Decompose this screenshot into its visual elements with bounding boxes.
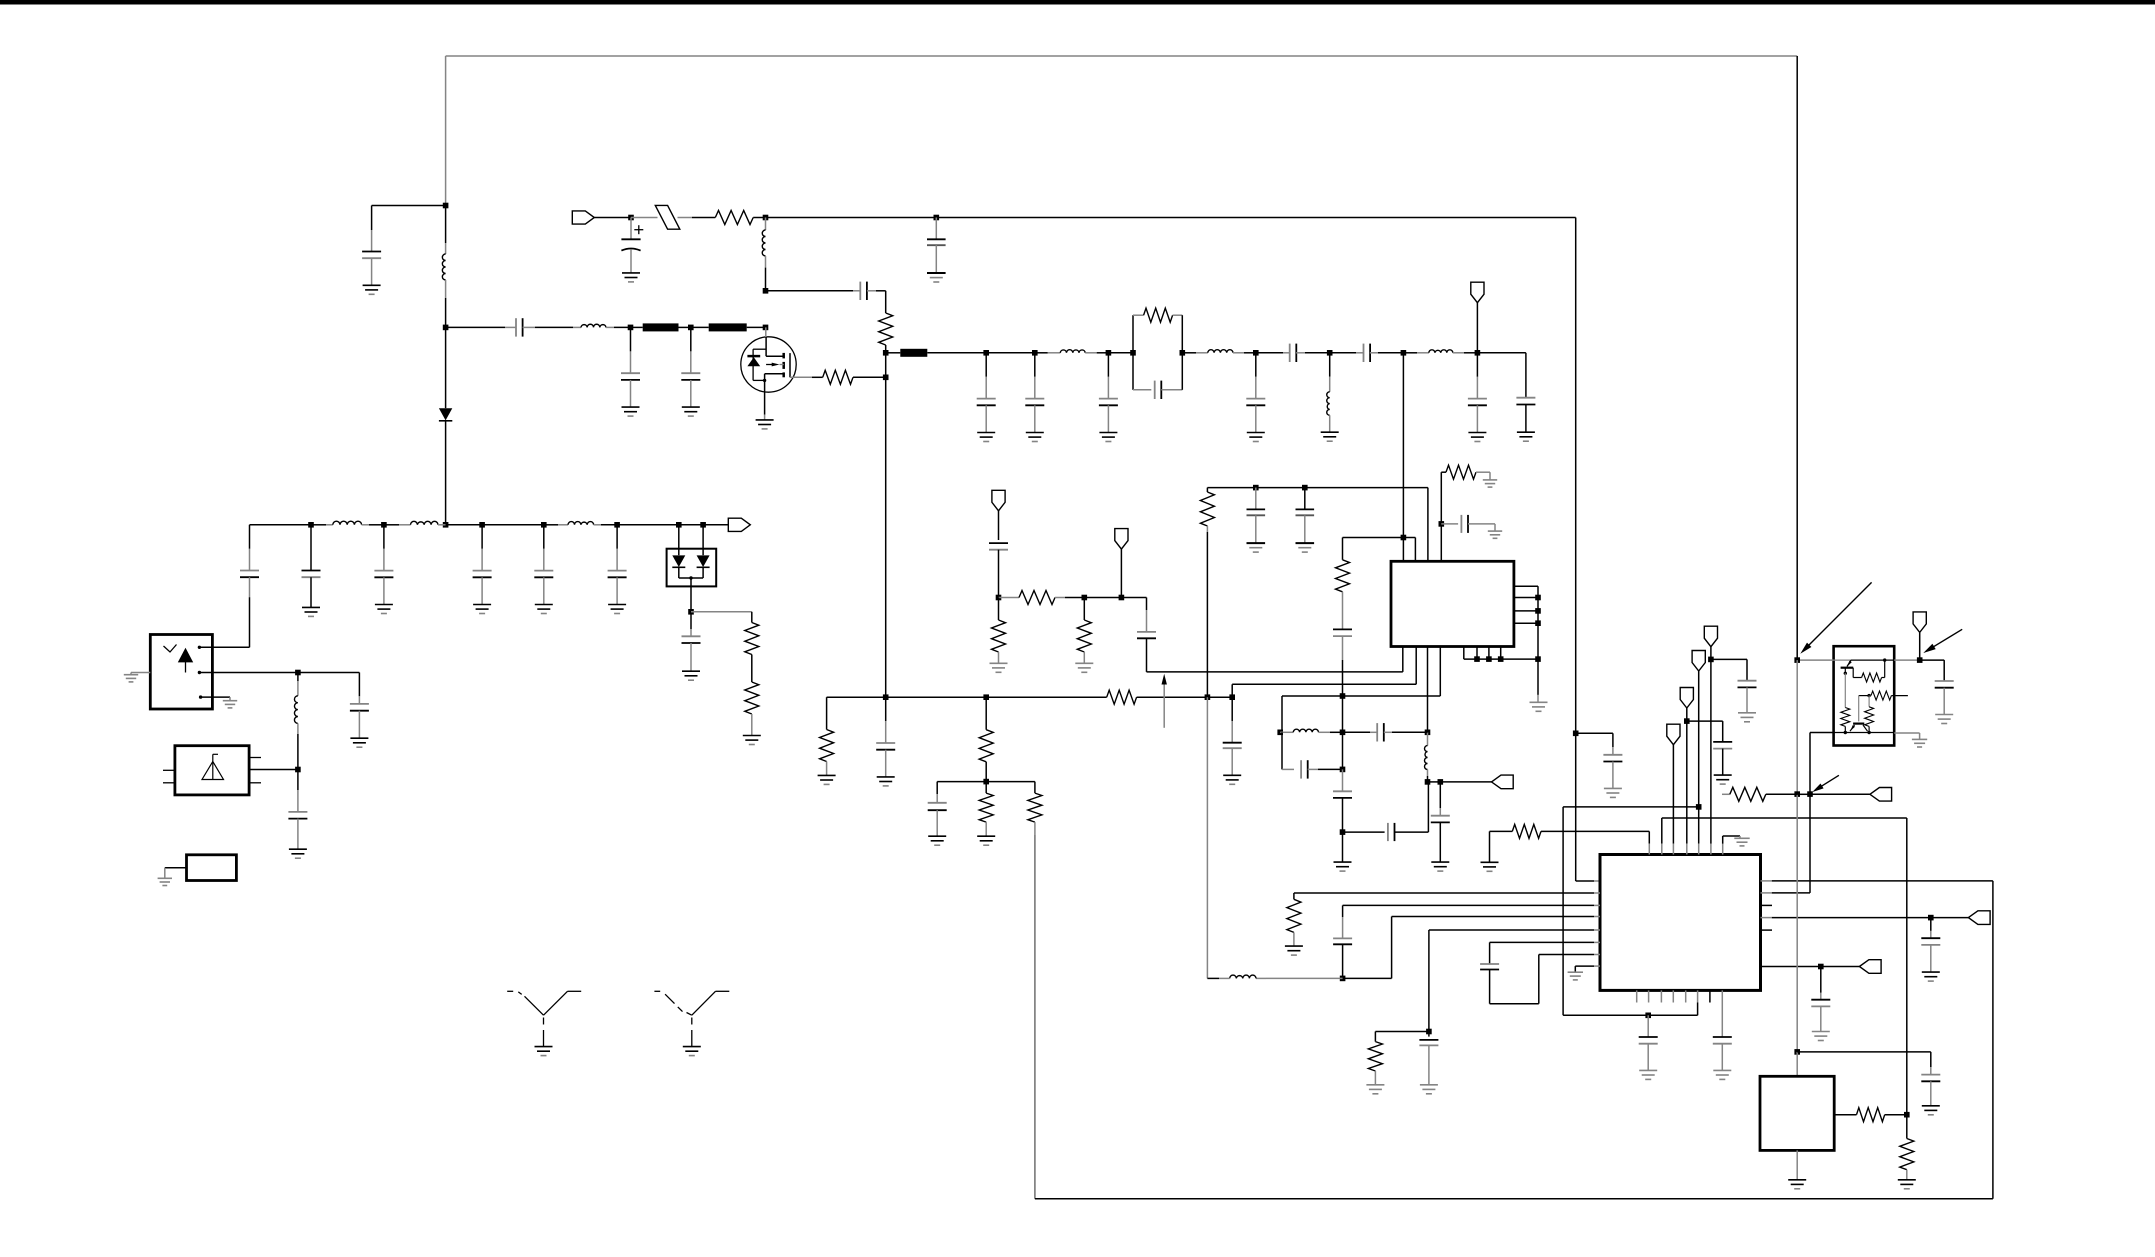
node J29 <box>688 609 694 615</box>
capacitor C42 shunt <box>1428 1032 1430 1037</box>
IC U4 left pin net y=930 RC <box>1429 929 1594 931</box>
resistor R5 <box>745 623 759 655</box>
ferrite bead FB3 <box>886 352 901 354</box>
node J27 <box>676 522 682 528</box>
resistor R2 <box>879 313 893 345</box>
ferrite bead FB2 <box>709 323 747 331</box>
ferrite bead FB1 <box>643 323 679 331</box>
wire to C24 <box>298 672 360 674</box>
inductor L13 <box>1280 731 1293 733</box>
ground C44 <box>1639 1069 1657 1071</box>
inductor L1 <box>445 243 447 254</box>
TVS diode pair D2 box <box>667 549 717 587</box>
node J34 <box>1205 694 1211 700</box>
antenna Y1 dashed <box>525 996 544 1015</box>
resistor R27 to ground <box>1906 1115 1908 1139</box>
node J11 gate node <box>883 375 889 381</box>
U1 pin2 <box>198 671 201 674</box>
node J36 <box>983 779 989 785</box>
ground C42 <box>1420 1084 1438 1086</box>
antenna Y2 dashed <box>665 994 674 1003</box>
transistor block U5 box <box>1834 646 1895 745</box>
IC U3 bottom stub rail <box>1463 647 1465 660</box>
IC U3 box <box>1391 561 1514 646</box>
node J42 <box>1401 535 1407 541</box>
capacitor C40 shunt <box>1612 733 1614 747</box>
node J61 <box>1794 657 1800 663</box>
IC U2 box <box>187 855 237 881</box>
ground R17 <box>1483 479 1497 481</box>
wire CN2 stem <box>1476 303 1478 353</box>
wire A-line <box>1147 671 1403 673</box>
IC U3 top pin B <box>1414 538 1416 562</box>
node J62 <box>1807 791 1813 797</box>
inductor L10 <box>544 524 558 526</box>
resistor R4 tank top <box>1133 314 1144 316</box>
capacitor C28 shunt <box>936 782 938 794</box>
node J64 <box>1794 791 1800 797</box>
resistor R9 under J33 <box>985 697 987 730</box>
node J3 <box>443 522 449 528</box>
wire VBAT top rail horizontal <box>446 55 1798 57</box>
node J7 <box>763 288 769 294</box>
node J55 <box>1645 1013 1651 1019</box>
wire to ground <box>1537 659 1539 695</box>
node J1 <box>443 203 449 209</box>
Q1 source lead <box>764 380 766 414</box>
capacitor C10 shunt <box>1107 353 1109 377</box>
capacitor C16 shunt at line end <box>1525 353 1527 398</box>
diode D2a <box>678 525 680 555</box>
inductor L2 drain feed <box>765 218 767 231</box>
ground R14 <box>1075 662 1093 664</box>
ground C18 <box>302 606 320 608</box>
resistor R24 in U5 <box>1868 696 1870 707</box>
resistor R21 in U5 <box>1841 708 1850 727</box>
IC U4 left pin net y=893 resistor R18 <box>1294 892 1594 894</box>
polarized capacitor C2 <box>630 218 632 240</box>
arrow pointer A3 <box>1818 775 1839 788</box>
wire J46 to CN6 <box>1440 781 1491 783</box>
connector CN13 <box>1913 612 1926 633</box>
arrow pointer A1 <box>1806 582 1872 648</box>
connector CN9 pentagon <box>1680 688 1693 709</box>
node J32 <box>883 694 889 700</box>
ground C45 <box>1713 1069 1731 1071</box>
capacitor C36 series lower arm <box>1281 732 1283 769</box>
resistor R6 <box>745 682 759 714</box>
capacitor C3 shunt <box>935 218 937 240</box>
wire VDD branch x=1563.1 <box>1563 806 1699 808</box>
IC U3 right pins to ground <box>1514 585 1538 587</box>
ground pin966 <box>1568 971 1583 973</box>
wire A-line corner up to IC1 <box>1402 647 1404 672</box>
node J35 <box>1229 694 1235 700</box>
node J8 <box>628 325 634 331</box>
wire RX line <box>250 524 312 526</box>
ground C2 <box>622 272 640 274</box>
connector CN1 pentagon <box>572 211 594 224</box>
wire left column top vertical <box>445 56 447 206</box>
ground U1 pin3 <box>223 700 237 702</box>
IC U4 right pin y=917.6 <box>1761 917 1772 919</box>
node J5 <box>763 215 769 221</box>
wire J1 to C1 <box>372 205 446 207</box>
wire J39 to C29 <box>1121 597 1146 599</box>
U6 bottom ground <box>1796 1150 1798 1179</box>
wire X1 to J31 <box>249 769 298 771</box>
U1 internal zener symbol <box>178 648 193 663</box>
X1 left pins <box>163 769 175 771</box>
capacitor C19 shunt <box>383 525 385 549</box>
IC U3 pin3 chain <box>1427 647 1429 733</box>
Q1 body diode <box>752 349 754 380</box>
resistor R23 base out <box>1859 695 1869 697</box>
wire bus to R8 <box>986 696 1106 698</box>
node J57 <box>1696 804 1702 810</box>
wire J3 to J24 <box>446 524 483 526</box>
wire rail corner down to IC1 <box>1427 488 1429 562</box>
node J63 <box>1917 657 1923 663</box>
fuse F1 <box>631 217 658 219</box>
node J10 <box>763 325 769 331</box>
ground Y1 <box>535 1046 553 1048</box>
capacitor C38 vertical <box>1342 769 1344 791</box>
node J58 <box>1684 718 1690 724</box>
wire J15 to tank <box>1108 352 1133 354</box>
node J56 <box>1708 657 1714 663</box>
capacitor C13 series <box>1256 352 1283 354</box>
ground C50 <box>1935 714 1953 716</box>
ground C16 <box>1517 431 1535 433</box>
ground R20 <box>1481 861 1499 863</box>
wire J26 to TVS <box>617 524 679 526</box>
U5 right ground <box>1894 732 1919 734</box>
node J47 <box>1340 693 1346 699</box>
tank right leg <box>1181 315 1183 390</box>
ground C1 <box>363 284 381 286</box>
IC U4 top pin resistor R20 net <box>1648 831 1650 843</box>
wire J2 down to D1 <box>445 327 447 408</box>
wire J11 down to bus <box>885 377 887 697</box>
node J48 <box>1277 730 1283 736</box>
inductor L4 <box>1035 352 1048 354</box>
wire J7 feedback top <box>766 290 854 292</box>
wire J65 row <box>1797 1051 1931 1053</box>
node J39 <box>1119 595 1125 601</box>
resistor R26 from U6 <box>1834 1114 1856 1116</box>
regulator U1 box <box>150 635 212 710</box>
wire J29 to divider <box>691 611 752 613</box>
capacitor C27 shunt <box>1231 697 1233 721</box>
arrow pointer A2 <box>1930 629 1963 649</box>
capacitor C11 tank bottom <box>1133 389 1151 391</box>
ground R6 <box>743 735 761 737</box>
U5 base loop resistor R22 <box>1852 668 1854 678</box>
page top border bar <box>0 0 2155 5</box>
connector CN2 antenna <box>1471 282 1484 303</box>
IC U4 right stub y=905.4 <box>1761 904 1773 906</box>
capacitor C48 shunt <box>1930 918 1932 931</box>
node J25 <box>541 522 547 528</box>
wire D1 to RX line <box>445 421 447 525</box>
IC U4 bottom pin with C45 <box>1721 990 1723 1036</box>
TVS common leg <box>679 577 703 579</box>
node J30 <box>295 670 301 676</box>
capacitor C32 shunt <box>1304 488 1306 510</box>
IC U3 pin4 <box>1439 647 1441 697</box>
wire J52 branch to C40 <box>1576 732 1613 734</box>
node J53 <box>1340 976 1346 982</box>
wire J56 branch to C46 <box>1711 658 1747 660</box>
wire right border vertical <box>1992 881 1994 1199</box>
resistor R19 <box>1375 1031 1429 1033</box>
U1 left ground <box>131 672 150 674</box>
connector CN8 pentagon <box>1692 651 1705 672</box>
wire J21 to C16 <box>1477 352 1526 354</box>
node J12 <box>883 350 889 356</box>
node J19 <box>1327 350 1333 356</box>
diode D2b <box>702 525 704 555</box>
ground C48 <box>1922 971 1940 973</box>
ground R13 <box>990 662 1008 664</box>
IC U4 left pin y=966.1 ground <box>1575 965 1594 967</box>
capacitor C15 shunt <box>1476 353 1478 377</box>
capacitor C14 series <box>1330 352 1356 354</box>
U1 pin3 <box>199 695 202 698</box>
inductor L6 to ground <box>1329 353 1331 377</box>
inductor L9 <box>384 524 399 526</box>
transistor Q3 NPN <box>1858 696 1860 722</box>
resistor R8 in bus <box>1107 690 1137 704</box>
ground Q1 source <box>756 419 774 421</box>
connector CN11 <box>1968 911 1990 925</box>
wire 3V rail <box>1207 487 1428 489</box>
node J37 <box>996 595 1002 601</box>
capacitor C20 shunt <box>481 525 483 549</box>
node J2 <box>443 325 449 331</box>
node J26 <box>614 522 620 528</box>
node J49 <box>1340 730 1346 736</box>
connector CN10 pentagon <box>1667 724 1680 745</box>
ground C24 <box>350 737 368 739</box>
resistor R15 top of divider <box>1206 488 1208 492</box>
capacitor C7 series feedback <box>853 290 860 292</box>
U2 left ground <box>165 867 187 869</box>
IC U4 bottom stubs <box>1636 990 1638 1002</box>
node J59 <box>1928 915 1934 921</box>
wire J52 down to IC4 pin <box>1575 733 1577 881</box>
node J23 <box>381 522 387 528</box>
IC U6 box <box>1760 1076 1834 1150</box>
ground C25 <box>289 848 307 850</box>
capacitor C39 series to J51 <box>1343 831 1385 833</box>
wire J38 to J39 <box>1084 597 1121 599</box>
capacitor C26 shunt <box>885 697 887 721</box>
U1 pin1 <box>198 646 201 649</box>
capacitor C34 bypass <box>1441 523 1458 525</box>
capacitor C1 <box>371 206 373 231</box>
ground C51 <box>1922 1105 1940 1107</box>
wire J1 down to L1 <box>445 206 447 244</box>
IC U4 top pin gnd L <box>1722 844 1724 855</box>
node J17 <box>1180 350 1186 356</box>
inductor L11 <box>297 673 299 682</box>
node J31 <box>295 767 301 773</box>
wire corner down to R2 <box>885 291 887 313</box>
capacitor C30 series vertical <box>989 542 1008 544</box>
wire FB2 to Q1 drain <box>747 326 766 328</box>
ground C35 <box>1431 861 1449 863</box>
node J52 <box>1573 731 1579 737</box>
resistor R7 <box>820 730 834 762</box>
transistor Q2 PNP <box>1841 667 1854 669</box>
node J9 <box>688 325 694 331</box>
wire CN7 stem <box>1710 659 1712 843</box>
X1 internal symbol <box>202 762 224 780</box>
inductor L3 <box>573 326 581 328</box>
wire RX line left corner <box>249 525 251 549</box>
ground Y2 <box>683 1046 701 1048</box>
U5 node N1 <box>1867 694 1870 697</box>
connector CN7 pentagon <box>1704 626 1717 647</box>
node J54 <box>1426 1029 1432 1035</box>
capacitor C44 shunt <box>1647 1015 1649 1036</box>
resistor R16 chain <box>1342 538 1344 560</box>
node J50 <box>1340 767 1346 773</box>
ground C23 <box>682 670 700 672</box>
U5 bottom rail <box>1834 732 1895 734</box>
capacitor C29 series at A-line <box>1146 638 1148 672</box>
ground C47 <box>1714 774 1732 776</box>
wire CN1 to J4 <box>594 217 631 219</box>
capacitor C18 shunt <box>310 525 312 570</box>
node J13 <box>983 350 989 356</box>
wire CN5 stem <box>1120 549 1122 597</box>
capacitor C22 shunt <box>616 525 618 549</box>
wire corner down x=1575.7 <box>1575 218 1577 734</box>
wire R15 gray continuation <box>1206 697 1208 978</box>
node J40 <box>1253 485 1259 491</box>
IC U3 top pin A <box>1402 353 1404 562</box>
IC U4 box main <box>1600 855 1761 991</box>
node J38 <box>1082 595 1088 601</box>
node J33 <box>983 694 989 700</box>
capacitor C6 <box>690 327 692 351</box>
connector CN3 RX out <box>728 518 750 531</box>
resistor R1 <box>692 217 715 219</box>
wire C4 to L3 <box>535 326 573 328</box>
ground C27 <box>1223 774 1241 776</box>
wire bus <box>827 696 886 698</box>
inductor L7 <box>1403 352 1417 354</box>
node J15 <box>1106 350 1112 356</box>
IC U4 bottom pin long <box>1697 990 1699 1002</box>
IC U4 left pins y=942.4/954.5 capacitor C43 loop <box>1490 941 1594 943</box>
wire CN9 stem <box>1686 721 1688 844</box>
wire J62 to CN14 <box>1810 793 1870 795</box>
IC U4 right pin y=892.9 <box>1761 892 1772 894</box>
capacitor C17 series in RX feed <box>249 549 251 570</box>
capacitor C24 shunt <box>358 673 360 697</box>
ground C40 <box>1604 787 1622 789</box>
node J18 <box>1253 350 1259 356</box>
node J20 <box>1401 350 1407 356</box>
diode D1 <box>439 408 452 420</box>
arrow pointer at A-line <box>1163 683 1165 728</box>
capacitor C31 shunt <box>1255 488 1257 510</box>
IC U4 right stub y=930.1 <box>1761 929 1773 931</box>
wire J6 to right corner <box>936 217 1575 219</box>
capacitor C49 shunt <box>1820 967 1822 993</box>
node J43 <box>1439 521 1445 527</box>
node J65 <box>1794 1049 1800 1055</box>
ground R19 <box>1366 1084 1384 1086</box>
node J46 <box>1438 779 1444 785</box>
IC U4 left pin net y=916.5 inductor L14 <box>1392 916 1594 918</box>
connector CN5 <box>1115 529 1128 550</box>
wire J58 branch to C47 <box>1687 720 1723 722</box>
capacitor C35 shunt <box>1439 782 1441 808</box>
ground R18 <box>1285 945 1303 947</box>
X1 right pins <box>249 757 261 759</box>
wire R11 long down <box>1034 835 1036 1199</box>
wire J13 to J14 <box>986 352 1035 354</box>
inductor L12 <box>1427 732 1429 745</box>
node J60 <box>1818 964 1824 970</box>
ground C34 <box>1488 530 1502 532</box>
wire U5 emitter rail down <box>1809 733 1811 795</box>
wire gray mid vertical <box>1796 660 1798 794</box>
connector CN14 <box>1870 788 1892 802</box>
ground C28 <box>928 835 946 837</box>
capacitor C37 series right arm <box>1343 731 1371 733</box>
capacitor C50 shunt <box>1943 660 1945 681</box>
capacitor C8 shunt <box>985 353 987 377</box>
node J16 <box>1130 350 1136 356</box>
wire J36 row <box>937 781 1035 783</box>
inductor L5 <box>1182 352 1196 354</box>
resistor R11 right leg <box>1034 782 1036 794</box>
node J14 <box>1032 350 1038 356</box>
wire J42 branch <box>1343 537 1404 539</box>
IC U4 top pin supply y=818 net <box>1661 818 1663 844</box>
wire CN4 stem <box>998 511 1000 540</box>
capacitor C23 shunt <box>690 612 692 629</box>
resistor R10 under J36 <box>985 782 987 794</box>
capacitor C25 shunt <box>297 770 299 791</box>
ground L6 <box>1321 431 1339 433</box>
IC U4 bottom rail wire <box>1563 1014 1698 1016</box>
wire VBAT top rail vertical right <box>1796 56 1798 660</box>
wire x=1906.8 down <box>1906 818 1908 1115</box>
node J4 <box>628 215 634 221</box>
U5 top rail <box>1797 659 1833 661</box>
wire bottom rail <box>1035 1198 1993 1200</box>
node J28 <box>700 522 706 528</box>
resistor R3 gate <box>812 376 823 378</box>
wire J5 to J6 <box>766 217 937 219</box>
resistor R14 under J38 <box>1083 598 1085 621</box>
ground J51 <box>1342 832 1344 862</box>
resistor R13 under J37 <box>998 598 1000 621</box>
wire corner <box>1282 695 1343 697</box>
IC U4 left pin net y=905.4 capacitor C41 <box>1343 904 1594 906</box>
capacitor C12 shunt <box>1255 353 1257 377</box>
connector CN12 <box>1859 960 1881 974</box>
node J51 <box>1340 829 1346 835</box>
transistor Q1 N-MOSFET <box>741 337 796 392</box>
